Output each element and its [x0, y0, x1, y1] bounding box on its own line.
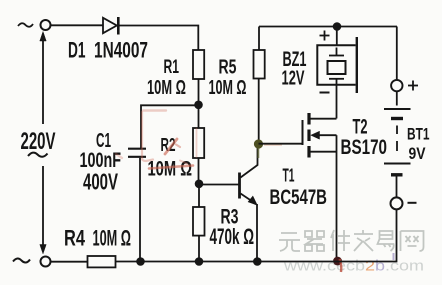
wire: node A to C1 branch	[141, 105, 199, 148]
junction dot C1/bottom rail	[136, 257, 145, 266]
MOSFET T2 drain lead	[311, 118, 337, 120]
wire: node B to T1 base	[199, 184, 239, 186]
red pen drip below junction	[340, 259, 342, 272]
resistor R4	[88, 256, 116, 267]
wire: diode to R1 corner	[118, 26, 198, 51]
minus sign BT1	[408, 202, 417, 204]
faint red mark right of node	[264, 143, 282, 146]
battery BT1 cell2 short plate	[391, 173, 403, 176]
red annotation strokes over R2	[116, 111, 197, 169]
wire: emitter to bottom rail	[256, 204, 258, 262]
tilde bottom-left	[13, 258, 30, 262]
AC terminal bottom-left	[41, 257, 51, 267]
wire: bottom terminal to R4	[50, 261, 87, 263]
svg-text:www.cecb2b.com: www.cecb2b.com	[283, 258, 424, 275]
watermark 元器件交易网 (hand-drawn outline glyphs)	[279, 230, 424, 251]
wire: node B to R3	[198, 184, 200, 207]
buzzer BZ1 plus sign	[320, 31, 330, 41]
battery BT1 cell1 short plate	[391, 117, 403, 120]
wire: buzzer to T2 drain	[336, 85, 338, 119]
wire: R1 to node A	[198, 79, 200, 104]
battery BT1 cell1 long plate	[384, 108, 411, 110]
wire: node A to R2	[198, 105, 200, 128]
resistor R2	[193, 128, 204, 158]
svg-text:R5: R5	[219, 56, 237, 79]
wire: R5 top corner from top rail	[258, 27, 260, 51]
wire: minus terminal to bottom rail corner	[116, 209, 397, 261]
wire: T2 source to bottom rail	[336, 135, 338, 261]
wire: rail to buzzer	[336, 27, 338, 46]
wire: top rail corner down to BT1 plus terminal	[396, 27, 398, 81]
svg-text:BS170: BS170	[341, 135, 388, 159]
MOSFET T2 body channel bar	[307, 130, 310, 142]
junction dot emitter/bottom rail	[253, 257, 262, 266]
MOSFET T2 gate bar	[302, 120, 304, 145]
svg-text:10M Ω: 10M Ω	[147, 76, 186, 99]
buzzer piezo element	[328, 48, 346, 85]
220V dimension line lower with down arrow	[40, 166, 46, 254]
transistor T1 collector	[241, 148, 258, 178]
svg-text:400V: 400V	[83, 169, 118, 195]
wire: terminal to battery	[396, 91, 398, 105]
resistor R5	[254, 50, 265, 79]
MOSFET T2 body lead with arrow	[311, 131, 337, 139]
olive pen smear below node	[257, 148, 259, 158]
wire: R5 to gate node	[258, 79, 260, 145]
tilde mid (AC mark)	[28, 153, 48, 157]
svg-text:R4: R4	[64, 226, 85, 251]
buzzer BZ1 right plate bar	[356, 37, 358, 93]
capacitor C1	[128, 149, 146, 157]
wire: C1 to bottom rail	[139, 158, 141, 262]
BT1 minus terminal circle	[391, 197, 403, 209]
wire: R3 to bottom rail	[198, 236, 200, 262]
resistor R3	[193, 207, 205, 236]
resistor R1	[193, 50, 204, 79]
battery dashed middle wire	[396, 126, 398, 152]
purple scan artifact near corner	[393, 253, 395, 260]
svg-text:9V: 9V	[409, 144, 427, 163]
svg-text:1N4007: 1N4007	[94, 38, 148, 63]
transistor T1 base bar	[238, 173, 241, 199]
wire: R2 to node B	[198, 158, 200, 184]
MOSFET T2 source channel bar	[307, 146, 310, 158]
node A junction dot	[194, 101, 203, 110]
svg-text:BT1: BT1	[407, 124, 430, 143]
svg-text:470k Ω: 470k Ω	[210, 224, 255, 249]
MOSFET T2 source lead	[311, 151, 337, 153]
junction dot buzzer tap	[333, 22, 342, 31]
top rail right segment	[259, 26, 397, 28]
wire: battery to minus terminal	[396, 176, 398, 197]
buzzer BZ1 case	[317, 45, 355, 84]
svg-text:10M Ω: 10M Ω	[209, 77, 247, 99]
plus sign BT1	[408, 81, 418, 91]
svg-text:12V: 12V	[282, 68, 305, 90]
transistor T1 emitter with arrow	[241, 194, 257, 205]
battery BT1 cell2 long plate	[384, 163, 411, 165]
wire: gate node to T2 gate	[259, 143, 303, 145]
diode D1	[103, 17, 118, 35]
junction dot T2/bottom rail with red blob	[333, 257, 342, 266]
BT1 plus terminal circle	[391, 80, 402, 91]
svg-text:BC547B: BC547B	[270, 185, 328, 209]
svg-text:D1: D1	[68, 38, 86, 63]
gate node dot (olive pen mark)	[254, 139, 263, 148]
AC terminal top-left	[41, 20, 51, 30]
tilde top-left	[18, 23, 33, 27]
MOSFET T2 drain channel bar	[307, 113, 310, 125]
wire: terminal to diode	[50, 24, 103, 26]
node B junction dot	[195, 180, 204, 189]
svg-text:10M Ω: 10M Ω	[93, 226, 132, 251]
svg-text:220V: 220V	[21, 128, 56, 155]
220V dimension line upper with up arrow	[40, 32, 46, 125]
buzzer minus sign	[320, 92, 330, 94]
junction dot R3/bottom rail	[195, 257, 204, 266]
svg-text:T1: T1	[283, 165, 295, 185]
svg-text:R1: R1	[164, 57, 180, 78]
